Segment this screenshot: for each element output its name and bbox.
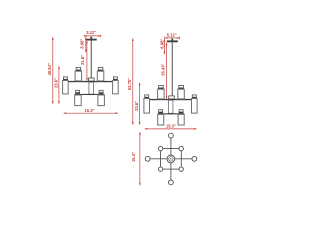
svg-text:15.3": 15.3": [85, 108, 95, 113]
upper shade L body right: [158, 89, 165, 99]
end shade R body: [113, 81, 119, 94]
lower shade R cap: [99, 90, 103, 92]
svg-text:5.12": 5.12": [167, 32, 177, 37]
dim line 15.3 plan: [139, 132, 141, 186]
plan corner circle TR: [179, 146, 183, 150]
plan end circle right: [192, 156, 197, 161]
dim line 21.6: [86, 41, 88, 81]
dim line 52.75: [132, 38, 134, 124]
svg-text:15.3": 15.3": [131, 152, 136, 162]
svg-text:15.3": 15.3": [166, 123, 176, 128]
svg-text:35.43": 35.43": [161, 63, 166, 75]
svg-text:23.6": 23.6": [134, 101, 139, 111]
lower shade L body right: [158, 114, 164, 125]
svg-text:21.6": 21.6": [80, 55, 85, 65]
upper shade R body: [97, 71, 104, 81]
hub column: [89, 82, 94, 94]
plan hub center dot: [170, 158, 171, 159]
hub column right: [168, 100, 173, 113]
end shade R cap: [113, 77, 117, 79]
upper shade R cap: [98, 67, 103, 70]
plan corner circle TL: [158, 146, 162, 150]
lower arm bar: [75, 94, 105, 95]
canopy stub: [90, 37, 92, 39]
plan square frame: [161, 149, 182, 170]
upper shade R cap right: [179, 85, 184, 88]
upper arm bar: [63, 81, 119, 82]
lower shade L cap right: [159, 110, 163, 112]
end shade L cap: [63, 77, 67, 79]
hub knob: [89, 78, 95, 81]
upper arm bar right: [144, 99, 198, 100]
lower shade R body right: [178, 114, 184, 125]
upper shade R body right: [178, 89, 185, 99]
dim line 3.12: [84, 34, 101, 37]
svg-text:40.94": 40.94": [47, 63, 52, 75]
end shade R body right: [192, 99, 198, 114]
dim line 40.94: [52, 37, 54, 104]
dim line 23.6 right view: [139, 83, 141, 125]
plan hub inner: [169, 157, 173, 161]
lower shade L body: [75, 95, 82, 106]
plan corner circle BR: [179, 167, 183, 171]
plan corner circle BL: [158, 167, 162, 171]
svg-text:23.6": 23.6": [53, 78, 58, 88]
upper shade L cap right: [159, 85, 164, 88]
upper shade L cap: [76, 67, 81, 70]
plan cross horizontal line: [150, 158, 192, 160]
lower shade R body: [98, 95, 105, 106]
svg-text:52.75": 52.75": [127, 78, 132, 90]
svg-text:8.98": 8.98": [80, 39, 85, 49]
canopy stub right: [171, 39, 173, 41]
dim line 8.98: [85, 37, 87, 52]
dim line 5.12: [165, 36, 180, 39]
plan hub outer: [167, 155, 175, 163]
lower arm bar right: [158, 113, 185, 114]
canopy plate right: [167, 40, 178, 42]
lower shade R cap right: [179, 110, 183, 112]
canopy plate: [86, 39, 97, 41]
dim line 15.3 bottom left view: [64, 112, 118, 114]
dim line 6.98: [164, 39, 166, 54]
end shade L cap right: [145, 95, 149, 97]
end shade L body: [63, 81, 69, 94]
stem right: [172, 42, 173, 96]
dim line 23.6: [58, 66, 60, 104]
plan cross vertical line: [170, 138, 172, 180]
dim line 35.43: [166, 43, 168, 99]
end shade L body right: [144, 99, 150, 114]
svg-text:6.98": 6.98": [159, 39, 164, 49]
dim line 15.3 bottom right view: [145, 128, 197, 130]
plan end circle left: [145, 156, 150, 161]
end shade R cap right: [192, 95, 196, 97]
upper shade L body: [75, 71, 82, 81]
stem: [91, 41, 92, 79]
plan end circle top: [169, 133, 174, 138]
hub knob right: [169, 96, 175, 99]
svg-text:3.12": 3.12": [86, 30, 96, 35]
lower shade L cap: [76, 90, 80, 92]
plan end circle bottom: [169, 180, 174, 185]
